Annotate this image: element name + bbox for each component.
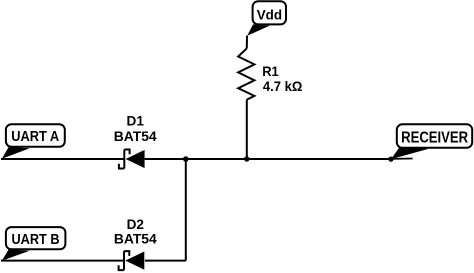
wire junction A to junction B [186, 158, 247, 160]
svg-text:BAT54: BAT54 [114, 128, 157, 144]
wire junction A down to bottom branch [185, 159, 187, 261]
diode D1 (Schottky) [119, 150, 145, 169]
net flag Vdd [247, 1, 286, 36]
svg-text:Vdd: Vdd [257, 7, 282, 23]
resistor R1 [238, 48, 254, 99]
wire bottom branch right segment [145, 260, 186, 262]
net flag UART B [2, 227, 66, 261]
wire D1 to junction A [145, 158, 186, 160]
svg-text:UART A: UART A [11, 128, 59, 145]
svg-text:D1: D1 [127, 113, 145, 129]
net flag RECEIVER [391, 124, 472, 159]
wire D2 to UART B [1, 260, 123, 262]
wire Vdd stem [246, 36, 248, 49]
junction A [183, 156, 189, 162]
svg-text:4.7 kΩ: 4.7 kΩ [263, 78, 303, 94]
wire UART A to diode D1 [1, 158, 124, 160]
RECEIVER pin dot [388, 157, 393, 162]
svg-text:RECEIVER: RECEIVER [401, 129, 468, 146]
diode D2 (Schottky) [119, 251, 145, 270]
wire resistor bottom to junction B [246, 100, 248, 159]
svg-text:D2: D2 [127, 216, 145, 232]
junction B (resistor tap) [244, 156, 249, 161]
svg-text:R1: R1 [262, 63, 279, 79]
net flag UART A [2, 124, 65, 159]
svg-text:UART B: UART B [12, 231, 60, 248]
wire junction B to RECEIVER pin [247, 158, 391, 160]
svg-text:BAT54: BAT54 [114, 231, 157, 247]
